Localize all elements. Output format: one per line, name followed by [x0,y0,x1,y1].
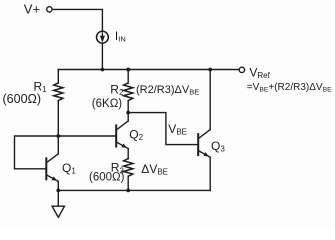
svg-text:=VBE+(R2/R3)ΔVBE: =VBE+(R2/R3)ΔVBE [247,82,332,94]
label R2 [110,82,124,97]
terminal V+ [47,7,52,12]
wire current source to top rail [101,43,103,69]
svg-text:(6KΩ): (6KΩ) [92,98,122,110]
junction node A (R2/Q2 collector) [126,111,130,115]
svg-text:Q2: Q2 [129,127,143,142]
wire top rail [58,69,239,71]
svg-text:ΔVBE: ΔVBE [141,162,168,177]
wire V+ to current source [52,9,102,31]
svg-text:VBE: VBE [168,122,187,137]
svg-text:R2: R2 [110,82,124,97]
junction bottom rail / R3 [126,189,130,193]
label delta V_BE [141,162,168,177]
svg-text:(600Ω): (600Ω) [3,92,42,106]
junction top rail / I_IN [101,68,105,72]
resistor R2 [124,70,133,113]
transistor Q3 [198,70,210,191]
transistor Q2 [116,113,128,159]
junction Q1 collector node [56,134,60,138]
svg-text:V+: V+ [24,2,40,17]
label V_BE [168,122,187,137]
wire node A to Q3 base [128,113,198,145]
wire Q1 feedback loop (collector to base) [15,136,59,169]
resistor R1 [54,70,63,137]
svg-text:(R2/R3)ΔVBE: (R2/R3)ΔVBE [136,84,199,97]
junction top rail / R2 [126,68,130,72]
label (R2/R3)dVbe [136,84,199,97]
label R3 [111,161,125,176]
wire bottom rail [58,189,210,191]
current source I_IN [97,31,109,43]
label R3 value (600ohm) [89,172,125,184]
svg-text:IIN: IIN [115,29,126,44]
svg-text:VRef: VRef [249,65,270,80]
svg-text:Q1: Q1 [62,161,76,176]
resistor R3 [124,159,133,191]
label R2 value (6Kohm) [92,98,122,110]
label V_Ref formula [247,82,332,94]
label V_Ref [249,65,270,80]
junction top rail / Q3 collector [208,68,212,72]
label Q1 [62,161,76,176]
label Q2 [129,127,143,142]
label I_IN [115,29,126,44]
label R1 value (600ohm) [3,92,42,106]
label Q3 [211,139,225,154]
wire Q1 collector node to Q2 base [58,135,116,137]
svg-text:Q3: Q3 [211,139,225,154]
terminal V_Ref [239,67,244,72]
label R1 [34,79,48,94]
ground [52,190,64,217]
junction bottom rail / Q1 emitter [56,189,60,193]
node V+ label [24,2,40,17]
transistor Q1 [46,136,58,190]
svg-text:(600Ω): (600Ω) [89,172,125,184]
